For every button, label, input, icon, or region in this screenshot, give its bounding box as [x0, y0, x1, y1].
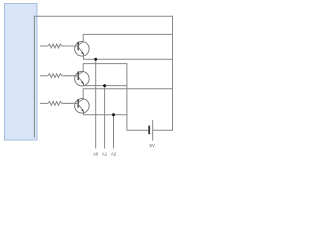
svg-text:A2: A2	[111, 152, 117, 157]
module U1 (blue rectangle)	[5, 4, 38, 141]
wire: A2 vertical	[113, 115, 115, 148]
svg-text:A0: A0	[93, 152, 99, 157]
junction node A0	[94, 58, 97, 61]
wire: A0 vertical	[95, 59, 97, 148]
transistor Q3	[64, 99, 89, 114]
svg-text:A1: A1	[102, 152, 108, 157]
wire: Q3 emitter rail	[84, 112, 127, 115]
resistor R2	[40, 74, 78, 78]
junction node A2	[112, 113, 115, 116]
wire: A1 vertical	[104, 86, 106, 148]
wire: vertical inside module	[33, 16, 35, 137]
wire: Q2 collector rail, down to battery minus	[83, 64, 148, 131]
wire: right rail vertical	[172, 16, 174, 130]
resistor R3	[40, 102, 78, 106]
resistor R1	[40, 44, 78, 48]
transistor Q2	[64, 71, 89, 86]
junction node A1	[103, 84, 106, 87]
wire: Q2 emitter rail	[84, 84, 127, 86]
wire: battery right lead	[153, 129, 173, 131]
svg-text:5V: 5V	[150, 143, 155, 148]
battery BT1	[149, 120, 153, 140]
transistor Q1	[64, 42, 89, 57]
wire: Q3 collector rail	[83, 89, 172, 99]
wire: Q1 collector rail	[83, 34, 172, 41]
wire: top rail	[34, 15, 172, 17]
wire: Q1 emitter rail	[84, 54, 173, 59]
